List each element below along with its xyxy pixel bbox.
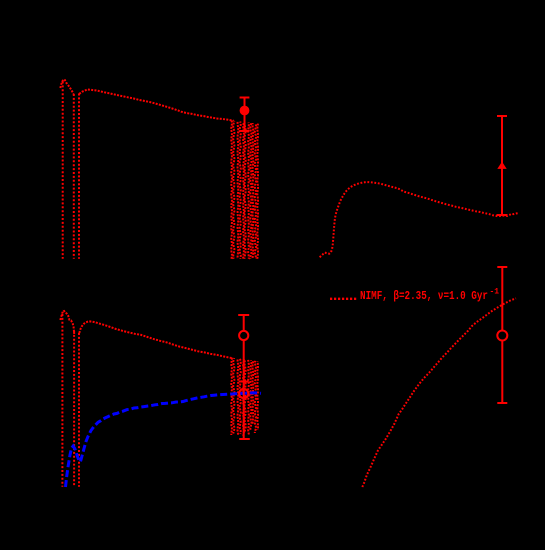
curve: top-left smooth decline (79, 89, 234, 120)
curve: bottom-left entry rise (60, 310, 63, 320)
wire: top-left oscillation spike C (78, 94, 80, 259)
curve: bottom-left smooth decline (79, 321, 232, 358)
curve: bottom-right rising track (362, 298, 516, 487)
node: top-right error bar with triangle (497, 116, 508, 215)
wire: bottom-left oscillation spike A (61, 314, 63, 487)
wire: top-left oscillation spike B (73, 94, 75, 259)
wire: bottom-left oscillation spike B (73, 331, 75, 487)
node: top-left data point error bar (240, 98, 250, 132)
node: bottom-right error bar with open circle (497, 267, 507, 403)
wire: legend dotted sample line (330, 298, 358, 300)
curve: blue dashed gas track (66, 393, 262, 487)
curve: bottom-left descent from peak (64, 310, 74, 334)
curve: top-right rising/declining track (320, 182, 518, 257)
node: top-left late oscillation band (231, 120, 258, 258)
node: bottom-left double error bar with open circles (238, 315, 250, 439)
curve: top-left SFR entry rise (60, 79, 64, 88)
curve: top-left descent from peak (65, 79, 74, 94)
svg-text:NIMF, β=2.35, ν=1.0 Gyr: NIMF, β=2.35, ν=1.0 Gyr (360, 290, 488, 303)
node: bottom-left late oscillation band (231, 358, 258, 436)
svg-text:-1: -1 (490, 288, 500, 297)
wire: top-left oscillation spike A (62, 82, 64, 259)
wire: bottom-left oscillation spike C (78, 333, 80, 487)
